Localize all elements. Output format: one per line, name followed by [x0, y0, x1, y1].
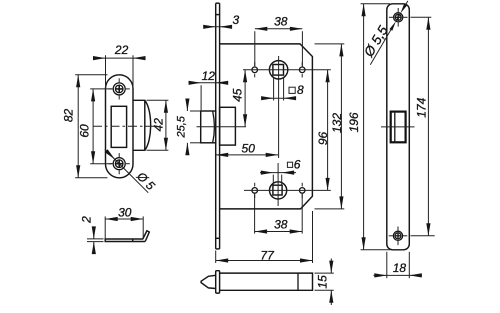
dimension 3 (faceplate thickness)	[203, 13, 239, 29]
latch bolt body inside case	[220, 107, 236, 145]
dimension 30 (side view length)	[105, 206, 143, 239]
upper hub square hole (8 mm)	[273, 65, 284, 76]
dimension 174 (screw holes spacing)	[411, 17, 435, 236]
strike plate horizontal centerline	[93, 125, 158, 127]
svg-text:25,5: 25,5	[176, 115, 188, 138]
svg-text:8: 8	[297, 83, 304, 97]
latch bolt head (protruding)	[201, 111, 216, 143]
svg-text:15: 15	[315, 275, 329, 289]
dimension square 8 (spindle hole)	[261, 77, 304, 101]
svg-text:Ø 5: Ø 5	[133, 169, 158, 194]
lower hub circle	[270, 182, 287, 199]
svg-text:50: 50	[242, 142, 256, 156]
dimension 60 (screw hole spacing)	[78, 89, 112, 164]
strike plate lip (bent tab, front view)	[133, 100, 151, 150]
upper hub horizontal centerline	[243, 69, 331, 71]
svg-text:38: 38	[274, 14, 288, 28]
strike plate outline	[106, 75, 134, 178]
dimension 15 (latch case thickness)	[315, 259, 334, 306]
front faceplate outline	[387, 4, 410, 250]
front faceplate bottom screw hole	[389, 227, 408, 246]
dimension 50 (backset)	[216, 142, 279, 157]
svg-text:30: 30	[118, 206, 132, 220]
dimension 12 (latch projection)	[189, 69, 229, 110]
svg-text:82: 82	[62, 109, 76, 123]
svg-text:38: 38	[274, 217, 288, 231]
dimension 38 (upper holes spacing)	[255, 14, 303, 66]
svg-text:18: 18	[393, 261, 407, 275]
svg-text:132: 132	[330, 113, 344, 133]
dimension 45 (hub to latch axis)	[231, 70, 248, 127]
lower right fixing hole	[299, 183, 305, 198]
upper left fixing hole	[252, 62, 258, 77]
svg-text:45: 45	[231, 88, 245, 102]
svg-text:6: 6	[294, 157, 301, 171]
svg-text:3: 3	[232, 13, 239, 27]
leader diameter 5 (screw hole dia)	[105, 149, 158, 193]
upper hub vertical centerline	[278, 56, 280, 158]
dimension 38 (lower holes spacing)	[255, 194, 303, 234]
lower left fixing hole	[252, 183, 258, 198]
latch window centerline	[381, 126, 415, 128]
dimension 22 (strike plate width)	[93, 43, 146, 88]
dimension 18 (faceplate width)	[374, 252, 423, 278]
upper hub circle	[269, 61, 287, 79]
svg-text:174: 174	[414, 97, 428, 117]
lock faceplate strip (edge view)	[216, 3, 220, 249]
dimension 42 (lip height)	[147, 100, 169, 150]
dimension 196 (faceplate length)	[347, 4, 390, 250]
leader diameter 5,5 (screw hole dia)	[361, 1, 408, 65]
latch side view body	[220, 273, 313, 290]
strike plate rectangular latch hole	[111, 106, 126, 147]
front faceplate latch window	[391, 112, 406, 143]
dimension 25,5 (latch height)	[176, 99, 201, 156]
svg-text:22: 22	[114, 43, 129, 57]
svg-text:96: 96	[316, 132, 330, 146]
upper right fixing hole	[299, 62, 305, 77]
latch side view faceplate flange	[216, 271, 220, 293]
dimension 77 (case depth)	[216, 211, 313, 263]
dimension 96 (hub centres spacing)	[316, 70, 330, 191]
strike plate side view bent lip	[143, 231, 150, 242]
svg-text:196: 196	[347, 112, 361, 132]
strike plate bottom screw hole	[109, 153, 130, 174]
svg-text:2: 2	[79, 216, 93, 224]
front faceplate top screw hole	[389, 8, 408, 27]
lower hub horizontal centerline	[244, 189, 331, 191]
strike plate top screw hole	[109, 78, 130, 99]
dimension square 6 (lower spindle hole)	[260, 157, 301, 184]
latch side view bolt head	[201, 275, 216, 288]
dimension 82 (strike plate height)	[62, 75, 108, 178]
svg-text:77: 77	[260, 248, 275, 262]
lower hub vertical centerline	[277, 163, 279, 206]
dimension 2 (plate thickness)	[79, 216, 103, 254]
svg-text:42: 42	[152, 118, 166, 132]
svg-text:12: 12	[202, 69, 216, 83]
strike plate side view plate	[105, 239, 145, 242]
svg-text:60: 60	[78, 124, 92, 138]
dimension 132 (case height)	[315, 44, 345, 209]
latch axis centerline	[197, 126, 247, 128]
lower hub square hole (6 mm)	[273, 185, 282, 195]
lock body outline	[220, 44, 313, 209]
